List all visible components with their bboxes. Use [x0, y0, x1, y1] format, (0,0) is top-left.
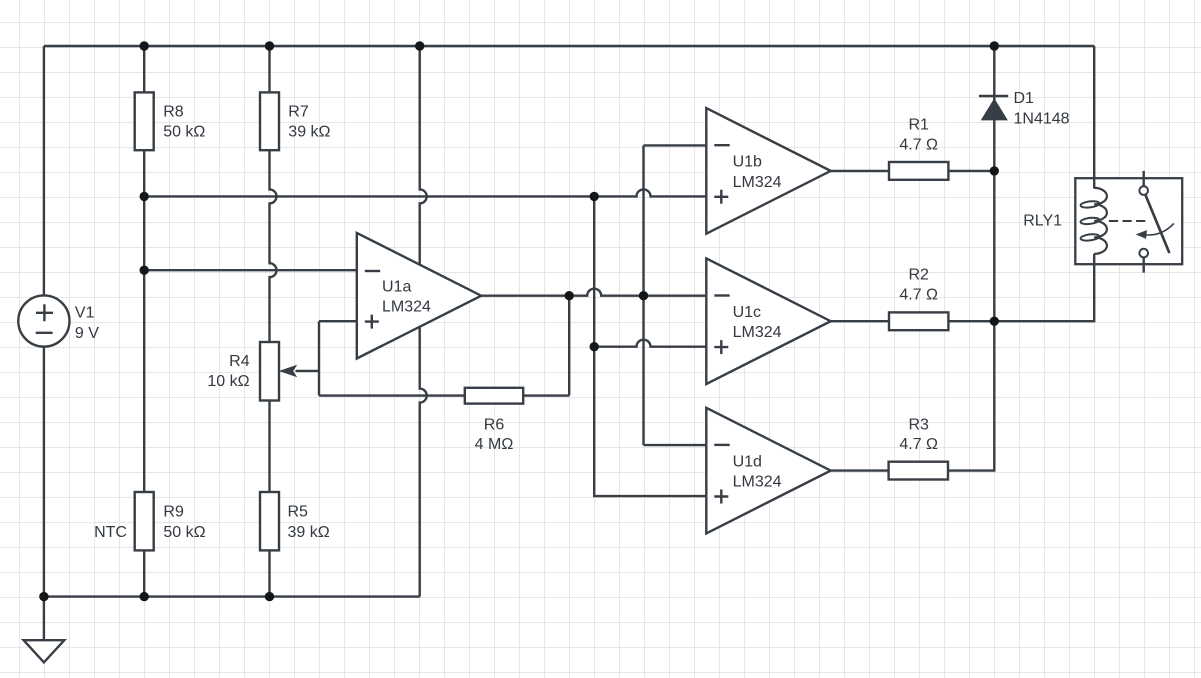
svg-text:LM324: LM324 — [733, 174, 782, 191]
resistor R9 (NTC) — [94, 492, 206, 550]
svg-text:R2: R2 — [908, 267, 929, 284]
svg-text:R4: R4 — [229, 353, 250, 370]
node gnd-V1 — [39, 592, 48, 601]
op-amp U1a — [357, 233, 481, 359]
op-amp U1c — [706, 258, 830, 384]
svg-text:U1c: U1c — [733, 304, 761, 321]
wire column x419 with hops — [420, 46, 427, 597]
svg-text:U1a: U1a — [382, 278, 411, 295]
resistor R2 — [889, 267, 948, 331]
wire U1a noninverting input — [319, 320, 357, 322]
voltage source V1 — [18, 295, 99, 346]
wire R6 left — [319, 394, 465, 396]
svg-text:U1b: U1b — [733, 154, 762, 171]
svg-text:1N4148: 1N4148 — [1014, 111, 1070, 128]
svg-text:LM324: LM324 — [382, 299, 431, 316]
resistor R1 — [889, 117, 948, 180]
wire divider tap 2 (y270) — [144, 269, 357, 271]
resistor R6 — [465, 388, 523, 453]
node R2-relay — [990, 317, 999, 326]
wire ground stub — [43, 597, 45, 641]
resistor R7 — [260, 92, 331, 150]
node rail-R7 — [265, 41, 274, 50]
svg-text:R3: R3 — [908, 417, 929, 434]
relay coil — [1080, 188, 1107, 254]
wire column x594 and U1d noninverting — [594, 196, 706, 496]
wire column x269 lower — [268, 401, 270, 493]
wire column x269 middle with hops — [270, 150, 277, 342]
wire feedback vertical x569 — [568, 296, 570, 396]
svg-text:R6: R6 — [484, 417, 505, 434]
node rail-R8 — [140, 41, 149, 50]
svg-text:R9: R9 — [163, 504, 184, 521]
relay switch top contact — [1139, 171, 1148, 195]
svg-text:9 V: 9 V — [75, 325, 99, 342]
wire column x144 bottom — [143, 550, 145, 596]
node gnd-R5 — [265, 592, 274, 601]
node rail-D1 — [990, 41, 999, 50]
resistor R3 — [889, 417, 948, 480]
svg-text:R1: R1 — [908, 117, 929, 134]
wire R3 right and column x994 — [948, 46, 994, 471]
diode D1 — [979, 90, 1070, 127]
wire column x643 — [642, 145, 644, 445]
wire column x269 top — [268, 46, 270, 92]
wire U1d output — [831, 469, 889, 471]
wire relay coil lead top — [1093, 176, 1095, 188]
wire top supply rail — [44, 45, 1094, 47]
svg-text:LM324: LM324 — [733, 474, 782, 491]
wire U1a output (y295.7) — [481, 289, 706, 296]
wire R1 right — [948, 170, 994, 172]
svg-text:50 kΩ: 50 kΩ — [163, 124, 205, 141]
node U1c-plus-branch — [590, 342, 599, 351]
wire wiper to node — [296, 370, 320, 372]
op-amp U1b — [706, 108, 830, 234]
wire node x319 vertical — [318, 321, 320, 395]
svg-text:4.7 Ω: 4.7 Ω — [899, 287, 938, 304]
wire left rail lower — [43, 347, 45, 597]
svg-text:NTC: NTC — [94, 524, 127, 541]
wire bottom rail — [44, 595, 420, 597]
svg-text:R5: R5 — [288, 504, 309, 521]
svg-text:4 MΩ: 4 MΩ — [475, 436, 514, 453]
wire U1c output — [831, 320, 889, 322]
node gnd-R9 — [140, 592, 149, 601]
wire U1b output — [831, 170, 889, 172]
node tap1 — [140, 192, 149, 201]
ground — [24, 640, 65, 662]
wire right rail — [1093, 46, 1095, 178]
svg-text:39 kΩ: 39 kΩ — [288, 524, 330, 541]
relay RLY1 box — [1023, 178, 1182, 264]
svg-text:10 kΩ: 10 kΩ — [207, 373, 249, 390]
node tap1-branch — [590, 192, 599, 201]
svg-text:50 kΩ: 50 kΩ — [163, 524, 205, 541]
resistor R8 — [135, 92, 206, 150]
wire column x144 middle — [143, 150, 145, 492]
wire divider tap 1 (y196) — [144, 189, 706, 196]
wire R6 right — [523, 394, 569, 396]
svg-text:R8: R8 — [163, 104, 184, 121]
relay switch blade — [1145, 194, 1169, 253]
node R1-D1 — [990, 166, 999, 175]
wire U1c noninverting (y346.7) — [594, 340, 706, 347]
potentiometer R4 — [207, 342, 279, 401]
relay switch bottom contact — [1139, 249, 1148, 273]
wire R2 right — [948, 320, 994, 322]
node U1a-out-branch — [639, 291, 648, 300]
svg-text:R7: R7 — [288, 104, 309, 121]
wire relay coil bottom to node — [994, 254, 1094, 322]
svg-text:39 kΩ: 39 kΩ — [288, 124, 330, 141]
node tap2 — [140, 266, 149, 275]
svg-text:4.7 Ω: 4.7 Ω — [899, 436, 938, 453]
svg-text:4.7 Ω: 4.7 Ω — [899, 136, 938, 153]
wire left rail upper — [43, 46, 45, 295]
svg-text:D1: D1 — [1014, 90, 1035, 107]
svg-text:U1d: U1d — [733, 453, 762, 470]
svg-text:RLY1: RLY1 — [1023, 212, 1062, 229]
wire U1b inverting input — [644, 144, 707, 146]
node U1a-out-feedback — [565, 291, 574, 300]
node rail-x419 — [415, 41, 424, 50]
wire column x144 top — [143, 46, 145, 92]
resistor R5 — [260, 492, 330, 550]
svg-text:LM324: LM324 — [733, 324, 782, 341]
op-amp U1d — [706, 408, 830, 534]
wire column x269 bottom — [268, 550, 270, 596]
potentiometer wiper arrow — [279, 365, 297, 377]
svg-text:V1: V1 — [75, 305, 95, 322]
relay actuation arrow — [1136, 223, 1174, 239]
wire U1d inverting input — [644, 444, 707, 446]
relay actuation dashed link — [1109, 220, 1149, 222]
